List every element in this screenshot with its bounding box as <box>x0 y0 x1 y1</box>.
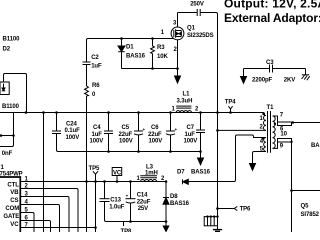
svg-text:TP8: TP8 <box>121 229 132 232</box>
svg-text:C14: C14 <box>137 193 148 199</box>
svg-text:1uF: 1uF <box>185 132 196 138</box>
svg-text:VC: VC <box>113 170 122 176</box>
svg-text:BA: BA <box>311 143 320 149</box>
svg-text:22uF: 22uF <box>148 132 162 138</box>
svg-text:Q1: Q1 <box>187 26 196 32</box>
svg-text:TP6: TP6 <box>240 207 251 213</box>
svg-text:C24: C24 <box>66 121 77 127</box>
svg-text:754PWP: 754PWP <box>0 171 23 177</box>
svg-text:10: 10 <box>280 131 287 137</box>
svg-text:C3: C3 <box>266 60 274 66</box>
svg-text:22uF: 22uF <box>137 199 151 205</box>
svg-text:D1: D1 <box>126 44 134 50</box>
svg-text:2200pF: 2200pF <box>252 78 273 84</box>
svg-text:CTL: CTL <box>7 182 19 188</box>
svg-text:22uF: 22uF <box>119 132 133 138</box>
svg-text:BAS16: BAS16 <box>170 201 190 207</box>
svg-text:C6: C6 <box>151 125 159 131</box>
svg-text:R6: R6 <box>92 83 100 89</box>
svg-text:C5: C5 <box>122 125 130 131</box>
svg-text:1uF: 1uF <box>92 132 103 138</box>
svg-text:D7: D7 <box>177 169 185 175</box>
svg-text:1mH: 1mH <box>145 171 158 177</box>
svg-text:100V: 100V <box>184 139 198 145</box>
svg-text:Q5: Q5 <box>301 204 310 210</box>
svg-text:+: + <box>126 194 129 199</box>
svg-text:100V: 100V <box>149 139 163 145</box>
svg-text:0nF: 0nF <box>2 151 13 157</box>
svg-text:100V: 100V <box>119 139 133 145</box>
svg-text:3.3uH: 3.3uH <box>177 98 193 104</box>
svg-text:VC: VC <box>10 222 19 228</box>
svg-text:C4: C4 <box>93 125 101 131</box>
svg-text:0.1uF: 0.1uF <box>65 128 81 134</box>
svg-text:100V: 100V <box>66 135 80 141</box>
svg-text:SI2325DS: SI2325DS <box>187 33 214 39</box>
svg-text:+: + <box>175 127 178 132</box>
svg-text:Output: 12V, 2.5A: Output: 12V, 2.5A <box>224 0 320 11</box>
svg-text:C2: C2 <box>91 55 99 61</box>
svg-text:C7: C7 <box>187 125 195 131</box>
svg-text:GATE: GATE <box>3 214 19 220</box>
svg-text:B1100: B1100 <box>3 36 21 42</box>
svg-text:TP5: TP5 <box>89 166 100 172</box>
svg-text:CS: CS <box>10 198 18 204</box>
svg-text:External Adaptor:: External Adaptor: <box>224 11 320 25</box>
svg-text:R3: R3 <box>157 45 165 51</box>
svg-text:25V: 25V <box>138 206 148 212</box>
svg-text:1uF: 1uF <box>91 64 102 70</box>
svg-text:COM: COM <box>5 206 19 212</box>
svg-text:C13: C13 <box>110 198 121 204</box>
svg-text:+: + <box>143 127 146 132</box>
svg-text:2KV: 2KV <box>284 78 295 84</box>
svg-text:SI7852: SI7852 <box>301 212 320 218</box>
svg-text:100V: 100V <box>90 139 104 145</box>
svg-text:L1: L1 <box>183 92 191 98</box>
svg-text:D2: D2 <box>3 46 11 52</box>
svg-text:T1: T1 <box>267 105 275 111</box>
svg-text:10K: 10K <box>157 54 168 60</box>
svg-text:D8: D8 <box>170 194 178 200</box>
svg-text:250V: 250V <box>190 1 204 7</box>
svg-text:BAS16: BAS16 <box>191 169 211 175</box>
svg-text:TP4: TP4 <box>225 100 236 106</box>
svg-text:BAS16: BAS16 <box>126 54 146 60</box>
svg-text:1.0uF: 1.0uF <box>109 205 125 211</box>
svg-text:VB: VB <box>10 190 19 196</box>
svg-text:B1100: B1100 <box>2 104 20 110</box>
